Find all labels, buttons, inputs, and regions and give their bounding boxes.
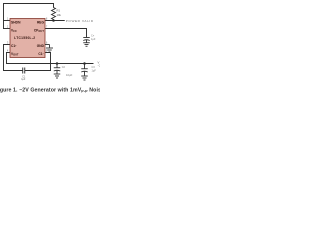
- svg-text:1µF: 1µF: [91, 38, 96, 41]
- svg-text:POWER VALID: POWER VALID: [66, 19, 94, 23]
- wire C1+ stub and down to flying cap line: [4, 45, 23, 71]
- junction REG/R1: [52, 19, 55, 22]
- svg-text:1µF: 1µF: [21, 78, 26, 81]
- background: [0, 0, 100, 100]
- wire CPOUT line: [45, 29, 87, 38]
- wire REG stub to POWER VALID: [45, 19, 64, 23]
- junction output cap 1: [56, 62, 59, 65]
- wire VCC stub: [4, 27, 11, 31]
- ground below C3: [81, 76, 88, 80]
- pin numbers: [7, 19, 48, 53]
- svg-text:C1+: C1+: [11, 44, 17, 48]
- junction output cap 2: [83, 62, 86, 65]
- svg-text:C1−: C1−: [38, 52, 44, 56]
- svg-text:REG: REG: [37, 21, 45, 25]
- wire VOUT stub down to output line: [7, 53, 94, 64]
- svg-text:LTC1550L-2: LTC1550L-2: [14, 36, 35, 40]
- wire flying cap line right half to C1- pin: [25, 53, 50, 71]
- svg-text:1µF: 1µF: [92, 70, 97, 73]
- wire SHDN stub: [4, 19, 11, 23]
- capacitor C2 output: [54, 64, 61, 74]
- resistor R1: [52, 7, 56, 21]
- ground below C2: [54, 74, 61, 78]
- capacitor CP on CPOUT: [83, 38, 90, 43]
- ground below CP: [83, 43, 90, 47]
- svg-text:SHDN: SHDN: [11, 21, 21, 25]
- capacitor C3 output: [81, 64, 88, 76]
- wire top rail VCC: [4, 4, 54, 29]
- svg-text:GND: GND: [37, 44, 45, 48]
- flying capacitor C1: [23, 68, 25, 74]
- IC U1 LTC1550L-2: [10, 19, 45, 58]
- ground at GND pin: [45, 45, 53, 53]
